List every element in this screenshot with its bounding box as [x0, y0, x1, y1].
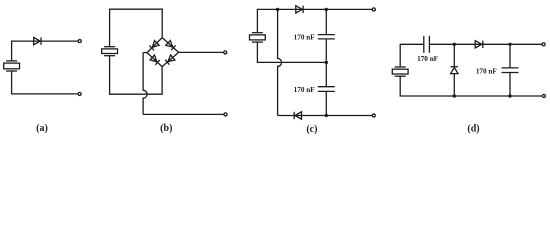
svg-text:170 nF: 170 nF	[417, 55, 439, 63]
terminal c-	[372, 114, 375, 117]
wire b: piezo X2 bottom to bridge bottom node	[110, 56, 163, 94]
capacitor C4 (d) 170 nF shunt	[502, 68, 519, 73]
bridge edge left-bottom	[147, 53, 162, 67]
piezo transducer X2 (b)	[102, 47, 118, 56]
wire c: C2 bottom lead	[325, 91, 327, 115]
capacitor C2 (c) 170 nF	[318, 87, 335, 92]
wire c: C1 bottom lead to midpoint	[325, 39, 327, 63]
wire b: bridge left node down with hop over crystal wire	[143, 53, 147, 115]
wire c: C1 top lead	[325, 9, 327, 34]
diode D7 (c) bottom rail	[294, 112, 301, 119]
wire b: bottom output rail	[143, 113, 224, 115]
terminal a+	[78, 40, 81, 43]
svg-text:(a): (a)	[36, 123, 48, 134]
wire c: left branch down with hop over piezo wire	[278, 9, 282, 115]
bridge edge top-right	[162, 38, 178, 53]
terminal b+	[224, 51, 227, 54]
bridge edge right-bottom	[162, 52, 179, 66]
wire d: piezo X4 top to series cap	[400, 44, 424, 67]
bridge diode D4 bottom-left	[150, 55, 160, 65]
wire c: C2 top lead	[325, 63, 327, 87]
svg-text:170 nF: 170 nF	[294, 34, 316, 42]
junction c midpoint node	[325, 61, 328, 64]
svg-text:(b): (b)	[160, 123, 172, 134]
svg-text:(c): (c)	[306, 124, 317, 135]
wire c: bottom rail	[278, 115, 373, 117]
wire b: piezo X2 top to bridge top node	[110, 9, 163, 47]
terminal b-	[224, 113, 227, 116]
bridge diode D2 top-left	[149, 41, 159, 51]
diode D1 (a) half-wave rectifier	[34, 37, 41, 44]
bridge diode D3 top-right	[166, 40, 176, 50]
piezo transducer X4 (d)	[392, 67, 408, 76]
svg-text:(d): (d)	[467, 124, 479, 135]
wire c: piezo X3 top to top rail	[257, 9, 372, 32]
wire a: bottom rail from piezo X1 to output terminal	[12, 71, 78, 94]
wire d: shunt diode to bottom rail	[453, 74, 455, 96]
capacitor C1 (c) 170 nF	[318, 35, 335, 39]
terminal c+	[372, 8, 375, 11]
junction d node A top	[453, 43, 456, 46]
wire b: bridge left node stub	[143, 52, 147, 54]
svg-text:170 nF: 170 nF	[294, 86, 316, 94]
piezo transducer X1 (a)	[4, 61, 20, 71]
wire d: bottom rail from piezo to output terminal	[400, 76, 542, 96]
wire b: bridge right node to output terminal	[179, 51, 224, 53]
diode D8 (d) shunt	[451, 67, 458, 74]
junction c bottom C2 node	[325, 114, 328, 117]
diode D9 (d) series	[475, 41, 483, 48]
junction c top-left node	[276, 8, 279, 11]
junction c top C1 node	[325, 8, 328, 11]
wire d: C4 to bottom rail	[509, 73, 511, 97]
terminal d+	[542, 43, 545, 46]
junction d node B top	[508, 43, 511, 46]
wire a: top rail from piezo X1 to output terminal	[12, 41, 79, 61]
capacitor C3 (d) 170 nF series	[424, 36, 430, 53]
bridge diode D5 bottom-right	[165, 55, 175, 65]
terminal a-	[78, 92, 81, 95]
wire c: piezo X3 bottom to capacitor midpoint	[257, 42, 326, 62]
diode D6 (c) top rail	[296, 6, 303, 13]
piezo transducer X3 (c)	[250, 33, 266, 42]
junction d node B bottom	[508, 94, 511, 97]
junction d node A bottom	[453, 94, 456, 97]
terminal d-	[542, 94, 545, 97]
wire d: node A down to shunt diode	[453, 44, 455, 66]
bridge edge left-top	[147, 38, 162, 53]
wire d: series cap to output terminal rail	[429, 43, 541, 45]
wire d: node B down to C4	[509, 44, 511, 68]
svg-text:170 nF: 170 nF	[476, 68, 498, 76]
